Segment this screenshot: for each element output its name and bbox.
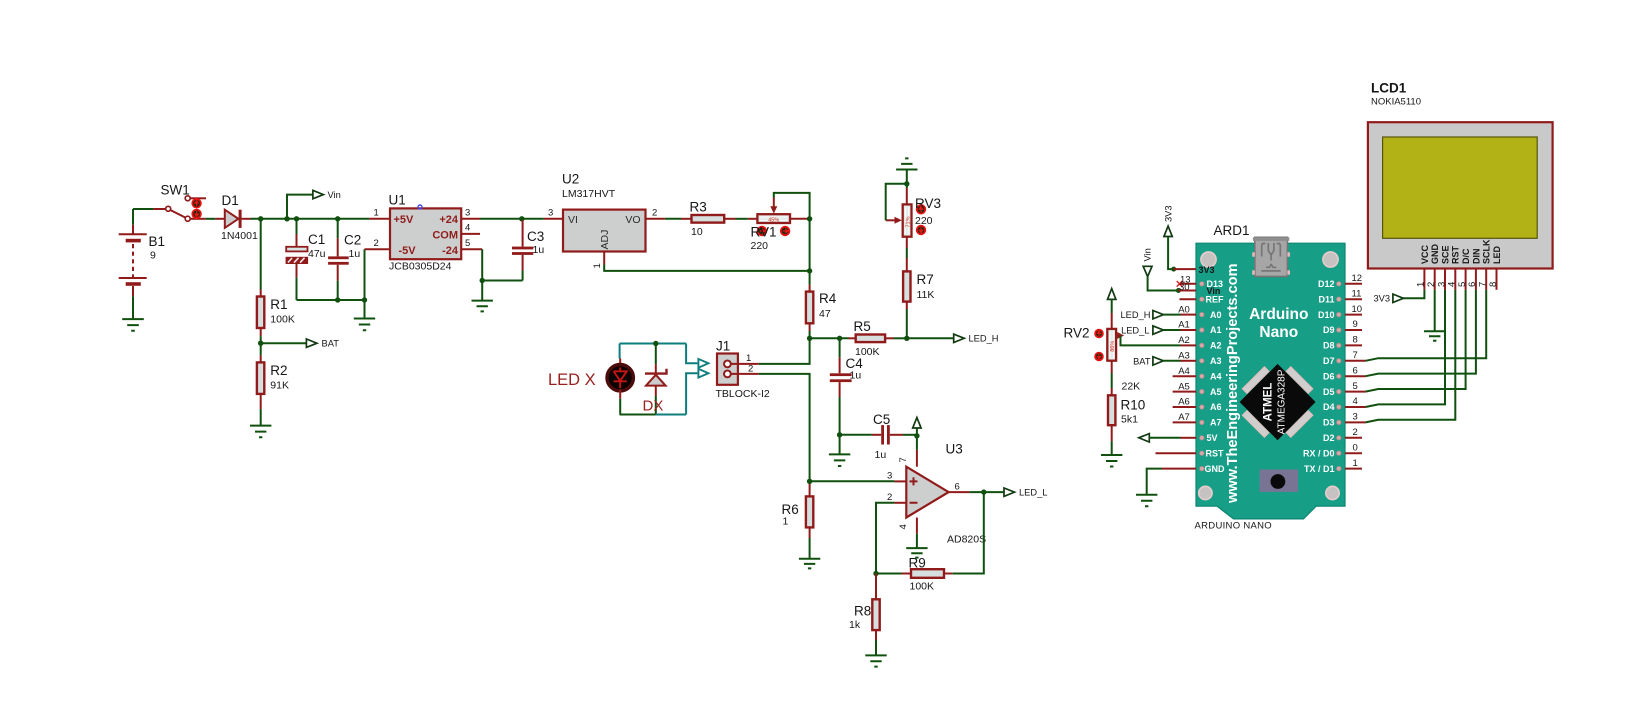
svg-text:2: 2 <box>374 238 379 249</box>
capacitor C1 47u electrolytic <box>286 219 307 300</box>
svg-text:71%: 71% <box>905 216 911 227</box>
svg-text:1u: 1u <box>875 449 887 461</box>
potentiometer RV3 220 <box>886 188 912 237</box>
junction R8/R9/pin2 node <box>873 571 878 576</box>
svg-text:220: 220 <box>915 215 933 227</box>
svg-text:A7: A7 <box>1210 418 1222 428</box>
svg-text:-24: -24 <box>442 245 459 257</box>
svg-text:A6: A6 <box>1210 402 1222 412</box>
ground under C1 C2 <box>354 300 375 330</box>
ARD1 pin 5V <box>1181 437 1197 439</box>
svg-text:J1: J1 <box>716 339 730 354</box>
svg-text:RV3: RV3 <box>915 196 941 211</box>
capacitor C3 1u <box>512 220 533 281</box>
svg-text:3: 3 <box>548 208 553 219</box>
resistor R2 <box>257 355 264 409</box>
svg-text:D7: D7 <box>1323 356 1335 366</box>
GND wire to ground <box>1147 469 1162 495</box>
D13 no-connect cross <box>1177 281 1183 287</box>
svg-text:6: 6 <box>1353 365 1358 376</box>
svg-text:9: 9 <box>1353 319 1358 330</box>
terminal LED_L <box>1004 488 1015 496</box>
junction RV3 top node <box>904 181 909 186</box>
capacitor C2 1u <box>328 219 349 300</box>
U1 origin marker <box>418 205 422 209</box>
svg-text:SW1: SW1 <box>161 183 190 198</box>
wire RV2 bottom to R10 <box>1111 361 1113 388</box>
svg-text:A6: A6 <box>1178 397 1190 408</box>
svg-text:LED_L: LED_L <box>1121 326 1149 336</box>
svg-text:GND: GND <box>1430 244 1440 265</box>
IC U1 JCB0305D24 <box>390 208 461 259</box>
wire LCD GND down <box>1434 290 1436 332</box>
svg-text:5: 5 <box>1353 381 1358 392</box>
J1 pin 1 <box>731 363 759 365</box>
svg-text:ARDUINO NANO: ARDUINO NANO <box>1195 521 1273 532</box>
diode DX <box>645 344 667 415</box>
svg-text:5: 5 <box>465 238 470 249</box>
svg-text:GND: GND <box>1205 464 1226 474</box>
svg-text:REF: REF <box>1206 294 1225 304</box>
svg-text:47u: 47u <box>308 248 326 260</box>
svg-text:BAT: BAT <box>322 339 340 349</box>
ARD1 pin A5 <box>1173 391 1196 393</box>
ATMEL chip black diamond <box>1240 364 1316 440</box>
svg-text:U2: U2 <box>562 172 579 187</box>
resistor R4 <box>806 285 813 331</box>
svg-text:4: 4 <box>1353 396 1358 407</box>
svg-text:Vin: Vin <box>1143 248 1153 261</box>
resistor R7 <box>903 237 910 339</box>
junction LED_L/R9 node <box>981 489 986 494</box>
resistor R10 <box>1108 388 1115 441</box>
svg-text:U1: U1 <box>389 193 406 208</box>
ground under R8 <box>865 640 886 667</box>
ARD1 pin D13 <box>1180 283 1197 285</box>
svg-text:5V: 5V <box>1207 433 1218 443</box>
terminal LED_H <box>954 334 965 342</box>
ground under R10 <box>1101 441 1122 466</box>
resistor R8 <box>872 574 879 641</box>
svg-text:LM317HVT: LM317HVT <box>562 188 616 200</box>
svg-text:R2: R2 <box>270 363 287 378</box>
wire U1 pin3 to node <box>480 218 520 220</box>
svg-text:C2: C2 <box>344 233 361 248</box>
ARD1 pin A7 <box>1173 421 1196 423</box>
U3 pin 3 <box>894 480 906 482</box>
ATMEL chip grey pin strips <box>1242 367 1312 437</box>
U3 pin 6 <box>949 491 970 493</box>
svg-text:D/C: D/C <box>1461 248 1471 264</box>
U1 pin 1 <box>369 218 390 220</box>
svg-text:4: 4 <box>465 223 470 234</box>
potentiometer RV2 22K <box>1107 313 1124 361</box>
5V wire with left arrow <box>1139 434 1181 442</box>
resistor R5 <box>849 335 894 343</box>
capacitor C5 1u <box>840 425 917 444</box>
svg-text:D9: D9 <box>1323 325 1335 335</box>
ARD1 pin A3 <box>1181 360 1197 362</box>
U2 pin 2 (VO) <box>646 218 665 220</box>
ground at LCD GND <box>1424 331 1445 341</box>
corner hole top-right <box>1323 252 1338 267</box>
junction Vin pin <box>1176 288 1181 293</box>
reset button <box>1260 470 1299 492</box>
resistor R9 <box>902 569 953 578</box>
svg-text:VO: VO <box>625 214 640 226</box>
svg-text:A7: A7 <box>1178 412 1190 423</box>
right pin numbers <box>1352 273 1363 469</box>
LCD pin 2 GND <box>1434 269 1436 290</box>
svg-text:1: 1 <box>783 516 789 528</box>
terminal LED_H to A0 <box>1121 310 1181 320</box>
U3 pin 7 <box>916 450 918 467</box>
svg-text:3: 3 <box>887 471 892 482</box>
junction node BAT <box>258 341 263 346</box>
LCD1 body <box>1368 122 1553 268</box>
svg-text:9: 9 <box>150 250 156 262</box>
U1 pin 4 (COM, unconnected) <box>461 233 480 235</box>
svg-text:220: 220 <box>751 240 769 252</box>
svg-text:A1: A1 <box>1210 325 1222 335</box>
svg-text:ARD1: ARD1 <box>1214 223 1250 238</box>
svg-text:A4: A4 <box>1178 366 1190 377</box>
svg-text:SCE: SCE <box>1440 245 1450 264</box>
potentiometer RV1 220 <box>748 198 810 224</box>
junction pin5/C3 ground node <box>480 278 485 283</box>
ARD1 pin A4 <box>1173 375 1196 377</box>
RV3 button decrease <box>917 226 926 235</box>
svg-text:3V3: 3V3 <box>1199 265 1215 275</box>
wire ground rail under C1 C2 <box>297 299 365 301</box>
U2 pin 3 (VI) <box>544 218 563 220</box>
junction node after D1 <box>258 216 263 221</box>
wire LCD VCC to 3V3 terminal <box>1403 290 1424 299</box>
svg-text:A1: A1 <box>1178 320 1190 331</box>
wire VO to R3 <box>665 218 681 220</box>
LCD1 screen <box>1383 137 1538 238</box>
svg-text:1: 1 <box>746 353 751 364</box>
ARD1 pin A6 <box>1173 406 1196 408</box>
svg-text:D4: D4 <box>1323 402 1335 412</box>
svg-text:Vin: Vin <box>328 190 341 200</box>
svg-text:D8: D8 <box>1323 341 1335 351</box>
LCD pin 5 D/C <box>1465 269 1467 290</box>
wire to Vin terminal <box>287 195 313 219</box>
Arduino right pads <box>1337 282 1341 471</box>
junction node C1 <box>294 216 299 221</box>
svg-text:RV2: RV2 <box>1064 326 1090 341</box>
ARD1 pin A1 <box>1181 329 1197 331</box>
svg-text:Nano: Nano <box>1259 324 1298 341</box>
diode D1 1N4001 <box>215 210 250 228</box>
resistor R1 <box>257 290 264 337</box>
op-amp U3 AD820S <box>906 467 948 518</box>
svg-text:4: 4 <box>898 524 909 529</box>
LCD pin 1 VCC <box>1423 269 1425 290</box>
battery ground <box>122 296 144 330</box>
svg-text:1N4001: 1N4001 <box>221 230 258 242</box>
svg-text:JCB0305D24: JCB0305D24 <box>389 261 452 273</box>
svg-text:0: 0 <box>1353 442 1358 453</box>
wire U1 pin2 to ground rail <box>364 249 366 300</box>
svg-text:A3: A3 <box>1210 356 1222 366</box>
svg-text:D2: D2 <box>1323 433 1335 443</box>
wire J1 pin2 down to R6 node <box>759 374 810 481</box>
junction C2 bottom <box>335 297 340 302</box>
LCD pin 6 DIN <box>1475 269 1477 290</box>
ground under C3 <box>472 281 493 312</box>
svg-text:U3: U3 <box>946 442 963 457</box>
ARD1 right pin stubs <box>1345 284 1366 469</box>
wire RV1 node down to R4 <box>809 219 811 285</box>
wire D5 to LCD D/C <box>1366 290 1466 392</box>
Arduino board ARD1 <box>1196 243 1345 519</box>
wire R9 to R8 node <box>876 573 902 575</box>
LCD pin 8 LED (unconnected) <box>1496 269 1498 290</box>
terminal 3V3 (up arrow) <box>1164 205 1174 269</box>
svg-text:RST: RST <box>1206 448 1225 458</box>
terminal BAT <box>306 339 317 347</box>
svg-text:2: 2 <box>748 363 753 374</box>
svg-text:D6: D6 <box>1323 371 1335 381</box>
terminal LED_L to A1 <box>1121 326 1180 336</box>
svg-text:1u: 1u <box>533 244 545 256</box>
svg-text:A2: A2 <box>1210 341 1222 351</box>
svg-text:1: 1 <box>592 263 603 268</box>
svg-text:DIN: DIN <box>1471 249 1481 265</box>
ARD1 pin Vin <box>1178 290 1196 292</box>
wire LED_L node down to R9 right <box>952 492 984 573</box>
svg-text:D10: D10 <box>1318 310 1335 320</box>
svg-text:3: 3 <box>1353 412 1358 423</box>
teal wire right riser top <box>686 344 697 364</box>
svg-text:BAT: BAT <box>1133 356 1151 366</box>
U2 pin 1 (ADJ) <box>603 252 605 265</box>
corner hole top-left <box>1201 252 1216 267</box>
svg-text:2: 2 <box>652 208 657 219</box>
svg-text:LED_H: LED_H <box>1121 310 1151 320</box>
ground at Arduino GND <box>1136 495 1157 507</box>
terminal Vin (down arrow) <box>1143 248 1179 290</box>
teal wire top rail <box>620 343 687 345</box>
svg-text:47: 47 <box>819 308 831 320</box>
teal wire bottom rail <box>656 414 686 416</box>
svg-text:12: 12 <box>1352 273 1363 284</box>
svg-text:R3: R3 <box>690 200 707 215</box>
ARD1 pin REF <box>1180 298 1197 300</box>
svg-text:100K: 100K <box>910 581 935 593</box>
IC U2 LM317HVT <box>563 210 646 252</box>
svg-text:RV1: RV1 <box>751 225 777 240</box>
svg-text:A0: A0 <box>1210 310 1222 320</box>
svg-text:2: 2 <box>1353 427 1358 438</box>
svg-text:D11: D11 <box>1318 294 1334 304</box>
wire ADJ to RV1 node <box>604 265 809 271</box>
svg-text:6: 6 <box>955 482 960 493</box>
svg-text:R9: R9 <box>909 556 926 571</box>
SW1 toggle button up <box>192 199 201 208</box>
svg-text:11K: 11K <box>917 289 935 301</box>
RV2 button decrease <box>1095 353 1103 361</box>
svg-text:TX / D1: TX / D1 <box>1304 464 1335 474</box>
svg-text:+5V: +5V <box>394 214 415 226</box>
RV1 button decrease <box>758 227 767 236</box>
svg-text:30: 30 <box>1179 282 1190 293</box>
svg-text:R1: R1 <box>270 297 287 312</box>
connector J1 TBLOCK-I2 <box>717 354 738 385</box>
svg-text:Arduino: Arduino <box>1249 306 1308 323</box>
svg-text:3V3: 3V3 <box>1373 294 1390 304</box>
wire J1 pin1 up to R4/R5 node <box>759 338 810 364</box>
svg-text:TBLOCK-I2: TBLOCK-I2 <box>716 388 770 400</box>
svg-text:R10: R10 <box>1121 398 1146 413</box>
wire U3 pin2 to node <box>876 503 894 574</box>
ARD1 pin 3V3 <box>1174 268 1196 270</box>
svg-text:RX / D0: RX / D0 <box>1303 448 1335 458</box>
svg-text:C5: C5 <box>873 412 890 427</box>
svg-text:www.TheEngineeringProjects.com: www.TheEngineeringProjects.com <box>1225 263 1241 504</box>
corner hole bottom-left <box>1199 486 1212 499</box>
ground under R6 <box>799 538 820 568</box>
RV1 wiper wire to right terminal <box>774 193 810 219</box>
LED X indicator <box>607 344 633 415</box>
terminal 3V3 at LCD <box>1393 294 1404 302</box>
wire D4 to LCD SCE <box>1366 290 1446 407</box>
junction ADJ/R4 node <box>807 268 812 273</box>
wire U1 pin5 down <box>481 249 483 280</box>
svg-text:45%: 45% <box>768 218 779 224</box>
R2 ground <box>250 409 271 437</box>
wire node to C4 and R5 <box>810 337 849 339</box>
LCD pin 4 RST <box>1454 269 1456 290</box>
svg-text:D3: D3 <box>1323 418 1335 428</box>
junction node C2 <box>335 216 340 221</box>
ground under opamp pin4 <box>906 534 927 558</box>
svg-text:LED_L: LED_L <box>1019 488 1047 498</box>
svg-text:R4: R4 <box>819 291 837 306</box>
svg-text:10: 10 <box>691 226 703 238</box>
RV3 wiper wire to top <box>886 184 907 221</box>
junction 3V3 pin <box>1171 267 1176 272</box>
junction C4/C5/ground node <box>837 432 842 437</box>
svg-text:D12: D12 <box>1318 279 1335 289</box>
terminal Vin <box>313 190 324 198</box>
svg-text:ATMEGA328P: ATMEGA328P <box>1277 369 1288 434</box>
resistor R3 <box>681 215 736 223</box>
wire BAT node to R2 <box>260 343 262 355</box>
ARD1 pin GND <box>1162 468 1196 470</box>
svg-text:ATMEL: ATMEL <box>1263 383 1275 422</box>
SW1 toggle button down <box>192 210 201 219</box>
svg-text:LED X: LED X <box>548 371 596 389</box>
svg-text:10: 10 <box>1352 304 1363 315</box>
svg-text:RST: RST <box>1451 245 1461 264</box>
wire D1 to node (main rail) <box>251 218 370 220</box>
svg-text:COM: COM <box>432 230 458 242</box>
svg-text:8: 8 <box>1488 282 1499 287</box>
wire node to U3 pin3 <box>810 480 895 482</box>
svg-text:B1: B1 <box>149 234 166 249</box>
svg-text:R5: R5 <box>854 319 871 334</box>
Arduino left pads <box>1200 282 1204 471</box>
svg-text:22K: 22K <box>1122 381 1141 393</box>
LCD pin 7 SCLK <box>1485 269 1487 290</box>
svg-text:3: 3 <box>465 208 470 219</box>
RV2 button increase <box>1095 330 1103 338</box>
svg-text:8: 8 <box>1353 335 1358 346</box>
junction DX top <box>653 341 658 346</box>
svg-text:R7: R7 <box>917 272 934 287</box>
ARD1 pin A0 <box>1181 314 1197 316</box>
wire battery top to switch <box>133 208 153 210</box>
svg-text:LED: LED <box>1492 245 1502 264</box>
svg-text:A5: A5 <box>1210 387 1222 397</box>
teal wire right riser bottom <box>686 373 697 414</box>
USB connector <box>1252 237 1290 276</box>
svg-text:2: 2 <box>887 492 892 503</box>
junction C4 top <box>837 336 842 341</box>
resistor R6 <box>806 481 813 538</box>
svg-text:91K: 91K <box>270 380 289 392</box>
battery B1 <box>119 209 147 296</box>
svg-text:A3: A3 <box>1178 351 1190 362</box>
right board labels <box>1303 279 1335 474</box>
svg-text:3V3: 3V3 <box>1164 205 1174 222</box>
junction R7/LED_H node <box>904 336 909 341</box>
junction node Vin riser <box>284 216 289 221</box>
bus arrow to J1 pin1 <box>698 359 708 368</box>
svg-text:VCC: VCC <box>1420 244 1430 264</box>
wire node to U2 VI <box>522 218 544 220</box>
junction R4/R5/C4 node <box>807 336 812 341</box>
ARD1 pin RST <box>1156 452 1197 454</box>
svg-text:11: 11 <box>1352 288 1362 299</box>
svg-text:VI: VI <box>568 214 578 226</box>
wire pin6 to LED_L node <box>969 491 1004 493</box>
svg-text:D1: D1 <box>222 193 239 208</box>
svg-text:R8: R8 <box>854 604 871 619</box>
capacitor C4 1u <box>830 338 852 435</box>
wire D3 to LCD RST <box>1366 290 1456 423</box>
wire bottom rail green part <box>620 414 656 416</box>
ARD1 pin A2 <box>1181 344 1197 346</box>
svg-text:1u: 1u <box>850 370 862 382</box>
svg-text:7: 7 <box>898 457 909 462</box>
switch SW1 <box>153 196 206 221</box>
svg-text:5k1: 5k1 <box>1121 414 1138 426</box>
power terminal above opamp <box>913 418 921 436</box>
svg-text:LCD1: LCD1 <box>1371 81 1407 96</box>
svg-text:A0: A0 <box>1178 304 1190 315</box>
power terminal above RV2 <box>1108 289 1116 313</box>
RV3 button increase <box>917 205 926 214</box>
ground under C4 <box>829 435 850 466</box>
svg-text:LED_H: LED_H <box>969 334 999 344</box>
wire D7 to LCD SCLK <box>1366 290 1487 361</box>
svg-text:A2: A2 <box>1178 335 1190 346</box>
LCD pin 3 SCE <box>1444 269 1446 290</box>
wire R1 to BAT node <box>260 336 262 343</box>
wire D6 to LCD DIN <box>1366 290 1476 376</box>
svg-text:+24: +24 <box>439 214 459 226</box>
wire R5 to LED_H node <box>894 337 907 339</box>
U1 pin 2 <box>365 248 391 250</box>
svg-text:1u: 1u <box>349 248 361 260</box>
terminal BAT to A3 <box>1133 356 1180 366</box>
svg-text:A4: A4 <box>1210 371 1222 381</box>
RV2 wiper wire to A2 <box>1121 336 1181 346</box>
